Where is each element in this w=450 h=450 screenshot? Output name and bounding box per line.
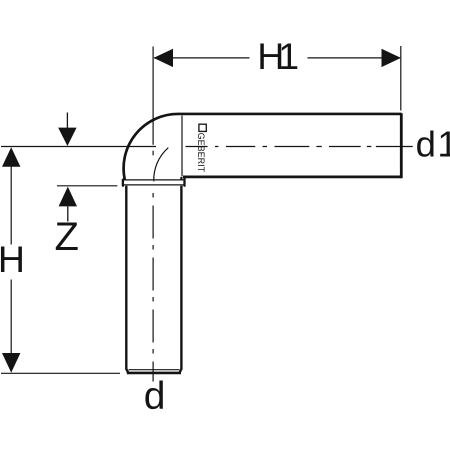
socket bead ring lower line (123, 184, 184, 186)
H bottom extension line (1, 372, 120, 374)
vertical leg right edge (180, 186, 182, 373)
Z lower arrowhead (points up) (59, 187, 77, 207)
H bottom arrowhead (2, 353, 20, 373)
Z upper arrowhead (points down) (58, 128, 76, 146)
svg-text:H: H (0, 238, 25, 280)
d1 centerline dash-dot part (186, 146, 413, 148)
svg-text:GEBERIT: GEBERIT (196, 133, 206, 173)
socket bead ring upper line (123, 179, 184, 181)
pipe outline: outer arc and top edge of horizontal leg (124, 114, 402, 180)
H top arrowhead (2, 147, 20, 167)
Z lower arrow shaft (67, 207, 69, 222)
d centerline dash-dot part (152, 193, 154, 382)
H1 right extension line (400, 46, 402, 111)
vertical leg left edge (126, 186, 128, 373)
d centerline first short dash (152, 151, 154, 156)
Z upper arrow shaft (66, 113, 68, 129)
socket bead left end cap (122, 180, 124, 186)
svg-text:H1: H1 (257, 35, 298, 77)
svg-text:d: d (144, 375, 166, 418)
vertical leg bottom thick edge (127, 372, 181, 375)
svg-text:d1: d1 (416, 123, 450, 164)
pipe bottom edge of horizontal leg (183, 176, 402, 179)
vertical leg bottom chamfer line (129, 369, 180, 371)
Z extension line (57, 185, 117, 187)
d1 centerline solid part (H top extension line) (1, 146, 156, 148)
inner bend arc (154, 148, 169, 182)
socket bead right end cap (183, 178, 185, 186)
pipe right end face (400, 113, 403, 178)
d centerline solid part (H1 left extension line) (152, 47, 154, 145)
bend seam line (181, 116, 183, 177)
H1 dimension line (154, 57, 400, 59)
inner corner stub between horizontal leg and bead (180, 177, 182, 180)
H dimension line (10, 149, 12, 372)
H1 right arrowhead (382, 49, 401, 67)
svg-text:Z: Z (54, 215, 78, 259)
Geberit logo square (199, 124, 206, 131)
H1 left arrowhead (154, 49, 173, 67)
